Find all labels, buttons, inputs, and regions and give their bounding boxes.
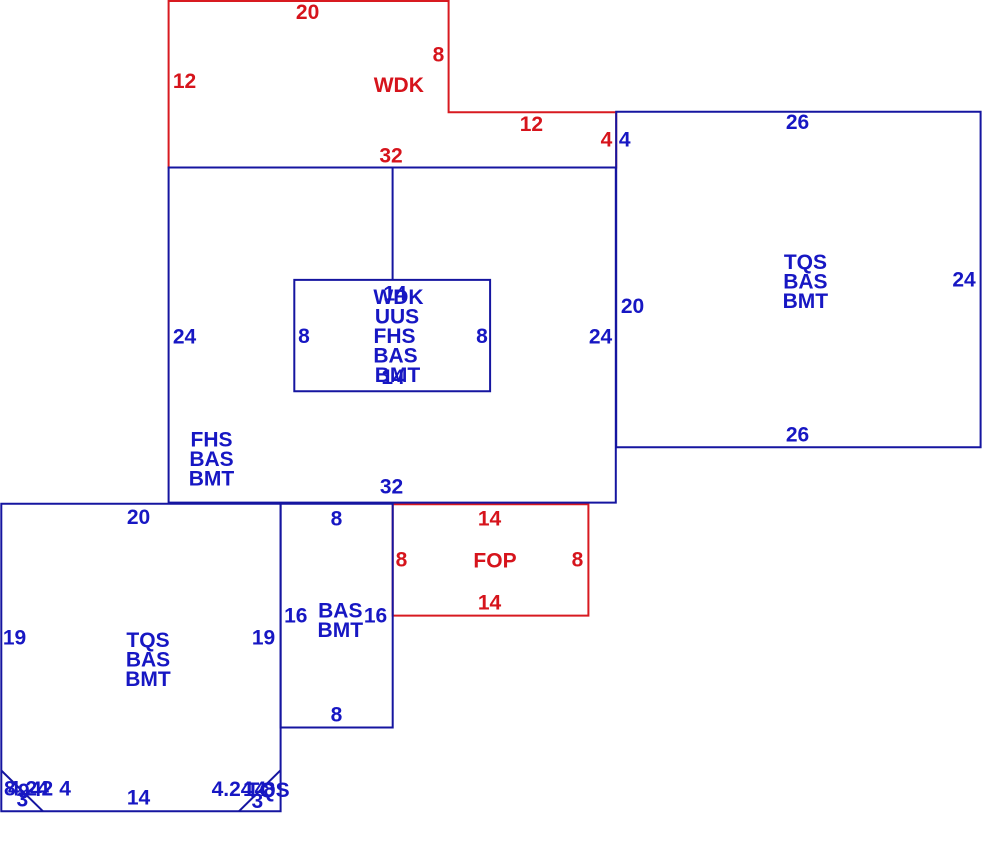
red WDK porch outline	[169, 1, 617, 168]
svg-text:20: 20	[127, 506, 150, 529]
svg-text:14: 14	[381, 366, 405, 389]
svg-text:8: 8	[476, 325, 488, 348]
svg-text:19: 19	[252, 627, 275, 650]
blue bottom-left rect	[1, 504, 280, 812]
svg-text:BMT: BMT	[318, 619, 364, 642]
svg-text:8: 8	[572, 549, 584, 572]
svg-text:16: 16	[364, 605, 387, 628]
svg-text:WDK: WDK	[374, 74, 424, 97]
blue divider wire	[392, 168, 394, 280]
svg-text:14: 14	[127, 787, 151, 810]
svg-text:24: 24	[589, 326, 613, 349]
svg-text:20: 20	[296, 1, 319, 24]
svg-text:4: 4	[59, 778, 71, 801]
blue middle main rect	[169, 168, 616, 503]
svg-text:BMT: BMT	[125, 668, 171, 691]
svg-text:14: 14	[478, 508, 502, 531]
blue corner diagonal right	[239, 770, 281, 811]
svg-text:BMT: BMT	[189, 468, 235, 491]
red FOP outline	[393, 504, 589, 615]
svg-text:8: 8	[331, 704, 343, 727]
svg-text:3: 3	[17, 789, 29, 812]
svg-text:32: 32	[379, 145, 402, 168]
svg-text:4: 4	[601, 129, 613, 152]
svg-text:8: 8	[264, 779, 276, 802]
blue inner stair rect	[294, 280, 490, 391]
svg-text:8: 8	[396, 549, 408, 572]
svg-text:26: 26	[786, 424, 809, 447]
svg-text:14: 14	[478, 592, 502, 615]
svg-text:4: 4	[619, 129, 631, 152]
svg-text:BMT: BMT	[783, 290, 829, 313]
svg-text:8: 8	[433, 44, 445, 67]
svg-text:FOP: FOP	[473, 550, 516, 573]
svg-text:8: 8	[298, 325, 310, 348]
svg-text:24: 24	[173, 326, 197, 349]
blue mid-bottom rect	[281, 504, 393, 728]
blue corner diagonal left	[1, 771, 43, 812]
svg-text:20: 20	[621, 295, 644, 318]
svg-text:12: 12	[173, 70, 196, 93]
svg-text:32: 32	[380, 476, 403, 499]
svg-text:24: 24	[952, 269, 976, 292]
svg-text:2: 2	[42, 778, 54, 801]
svg-text:4: 4	[30, 778, 42, 801]
svg-text:12: 12	[520, 113, 543, 136]
svg-text:19: 19	[3, 627, 26, 650]
svg-text:3: 3	[252, 790, 264, 813]
svg-text:16: 16	[284, 605, 307, 628]
svg-text:26: 26	[786, 111, 809, 134]
svg-text:8: 8	[331, 508, 343, 531]
blue right rect	[616, 112, 980, 447]
